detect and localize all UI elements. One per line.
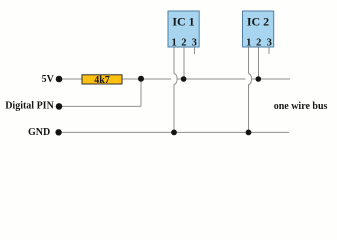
svg-text:2: 2 <box>256 38 261 49</box>
wire 5V terminal to resistor <box>59 78 82 80</box>
node junction IC1 pin2 on bus <box>181 76 187 82</box>
wire IC2 pin3 stub <box>268 47 270 54</box>
wire IC2 pin2 leg <box>258 47 260 79</box>
svg-text:5V: 5V <box>42 74 55 85</box>
wire IC1 pin1 leg lower to GND <box>173 84 175 132</box>
wire GND horizontal <box>59 131 289 133</box>
wire Digital PIN horizontal <box>59 105 141 107</box>
node GND terminal dot <box>55 129 61 135</box>
IC U1 (IC 1) <box>168 11 199 49</box>
wire IC1 pin3 stub <box>194 47 196 54</box>
svg-text:4k7: 4k7 <box>94 75 110 86</box>
wire Digital PIN riser to bus junction <box>140 79 142 106</box>
node junction IC2 pin2 on bus <box>255 76 261 82</box>
wire IC1 pin2 leg <box>183 47 185 79</box>
svg-text:one wire bus: one wire bus <box>274 101 328 112</box>
svg-text:IC 2: IC 2 <box>247 15 269 29</box>
wire resistor to hop of IC1 pin1 <box>122 78 171 80</box>
wire IC2 pin1 leg lower to GND <box>248 84 250 132</box>
svg-text:1: 1 <box>171 38 176 49</box>
wire IC1 pin1 leg upper <box>173 47 175 74</box>
svg-text:3: 3 <box>192 38 197 49</box>
wire data bus right end <box>252 78 291 80</box>
node 5V terminal dot <box>56 76 63 83</box>
wire IC2 pin1 leg upper <box>248 47 250 74</box>
IC U2 (IC 2) <box>243 11 274 49</box>
node junction IC2 pin1 on GND <box>246 130 252 136</box>
svg-text:IC 1: IC 1 <box>172 15 194 29</box>
resistor R1 4k7 <box>82 75 122 86</box>
svg-text:1: 1 <box>246 38 251 49</box>
node Digital PIN terminal dot <box>56 103 63 110</box>
node junction IC1 pin1 on GND <box>171 130 177 136</box>
svg-text:3: 3 <box>267 38 272 49</box>
wire IC2 pin1 hop over bus <box>249 74 252 85</box>
wire data bus between hops <box>177 78 246 80</box>
svg-text:GND: GND <box>28 127 50 138</box>
wire IC1 pin1 hop over bus <box>174 74 177 85</box>
node junction resistor/DigitalPIN/bus <box>138 76 144 82</box>
svg-text:2: 2 <box>181 38 186 49</box>
svg-text:Digital PIN: Digital PIN <box>5 101 54 112</box>
